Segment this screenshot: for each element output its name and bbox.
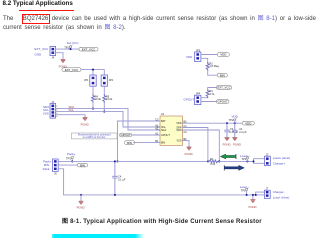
wire pin stubs U1 xyxy=(157,121,187,143)
junction at TP1 xyxy=(69,48,71,50)
red box annotation around BQ27426 xyxy=(22,14,50,24)
svg-text:VDD: VDD xyxy=(245,121,251,125)
wire Pack- to bottom rail xyxy=(58,169,256,195)
wire JP4 pin2 to GPOUT label xyxy=(201,101,217,103)
svg-text:Ext VCC: Ext VCC xyxy=(67,41,79,45)
svg-text:BIN: BIN xyxy=(127,141,132,145)
svg-text:U1: U1 xyxy=(161,112,165,116)
connector J1 xyxy=(50,100,58,118)
svg-text:JP2: JP2 xyxy=(109,78,114,82)
svg-text:to a GPIO on the host.: to a GPIO on the host. xyxy=(83,136,106,139)
svg-text:TP3: TP3 xyxy=(66,156,71,160)
junction J2 split xyxy=(252,160,254,162)
svg-text:TP5: TP5 xyxy=(241,189,246,193)
wire SDA bus xyxy=(56,108,128,110)
connector J6 xyxy=(53,159,59,175)
ground PGND (J4) xyxy=(59,60,67,69)
wire GPOUT label to U1 xyxy=(132,134,160,136)
wire PGND stub xyxy=(252,195,254,200)
svg-text:PGND: PGND xyxy=(185,152,193,156)
svg-text:0.01: 0.01 xyxy=(210,162,216,166)
wire J2 split xyxy=(254,159,265,164)
net label EXT_VCC (top) xyxy=(79,47,98,51)
svg-text:PGND: PGND xyxy=(81,123,89,127)
svg-text:VDD: VDD xyxy=(220,53,226,57)
wire JP1 to R4 xyxy=(92,86,94,94)
jumper JP5 xyxy=(195,48,201,61)
net label GPOUT (at U1) xyxy=(120,133,132,137)
junction SRP/R1 left xyxy=(207,160,209,162)
ground PGND (J1) xyxy=(81,118,89,127)
wire SDA drop to U1 xyxy=(128,109,160,130)
jumper JP4 xyxy=(195,92,201,105)
svg-text:BIN: BIN xyxy=(161,142,165,145)
svg-text:BIN: BIN xyxy=(220,73,225,77)
wire JP4 pin1 to R3 xyxy=(201,97,208,99)
capacitor C3 xyxy=(225,123,239,137)
connector J4 xyxy=(50,46,56,59)
connector J2 xyxy=(265,153,271,166)
op-amp U1 fuel gauge IC xyxy=(160,112,183,145)
svg-text:4.7k: 4.7k xyxy=(209,92,215,96)
resistor R3 xyxy=(206,89,215,98)
svg-text:4: 4 xyxy=(56,116,58,118)
svg-text:EXT_VCC: EXT_VCC xyxy=(35,47,50,51)
svg-text:GPOUT: GPOUT xyxy=(184,97,195,101)
junction C4 top xyxy=(114,160,116,162)
svg-text:BIN: BIN xyxy=(80,163,85,167)
wire SCL drop to U1 xyxy=(123,112,160,127)
net label VDD (JP5) xyxy=(217,53,229,57)
ground PGND (bottom rail) xyxy=(77,201,85,209)
figure caption xyxy=(62,216,262,225)
wire SRN xyxy=(183,130,220,161)
svg-text:EXT_VCC: EXT_VCC xyxy=(217,86,230,90)
ground PGND (U1 VSS) xyxy=(185,147,193,156)
svg-text:Charger+: Charger+ xyxy=(273,161,286,165)
svg-text:BAT: BAT xyxy=(161,120,166,123)
wire J4 pin2 to ground xyxy=(56,53,63,60)
junction J7 split xyxy=(255,194,257,196)
wire TP4 stem xyxy=(246,159,248,161)
junction TP5/rail xyxy=(246,194,248,196)
svg-text:SDA: SDA xyxy=(161,129,166,132)
svg-text:JP1: JP1 xyxy=(84,78,89,82)
net label EXT_VCC (pull-up rail) xyxy=(62,68,81,72)
net label BIN (J6) xyxy=(78,163,88,167)
junction TP3/Pack+ xyxy=(71,160,73,162)
wire R4 to SDA xyxy=(92,103,94,109)
junction TP4/Load+ xyxy=(246,160,248,162)
test point TP1 xyxy=(64,45,72,50)
wire JP5 pin2 to R2 xyxy=(201,58,208,62)
jumper JP2 xyxy=(101,75,114,86)
svg-text:PGND: PGND xyxy=(77,205,85,209)
wire VSS to ground xyxy=(183,141,190,147)
svg-text:Load- (Host): Load- (Host) xyxy=(273,195,290,199)
svg-text:J6: J6 xyxy=(54,171,57,175)
svg-text:2.2 µF: 2.2 µF xyxy=(239,130,247,134)
wire SCL bus xyxy=(56,111,123,113)
wire BAT riser (U1 BAT to Pack+) xyxy=(118,121,161,161)
svg-text:GPOUT: GPOUT xyxy=(218,100,229,104)
svg-text:VDD: VDD xyxy=(176,122,181,125)
ground PGND (C1) xyxy=(233,138,241,147)
net label EXT_VCC (JP4) xyxy=(216,86,231,90)
note box: recommended GPIO xyxy=(72,133,118,139)
svg-text:Charger-: Charger- xyxy=(273,190,285,194)
svg-text:VSS: VSS xyxy=(43,112,49,116)
svg-text:GND: GND xyxy=(35,52,43,56)
svg-text:TP2: TP2 xyxy=(229,118,234,122)
junction bottom rail left xyxy=(80,194,82,196)
svg-text:Load+ (Host): Load+ (Host) xyxy=(273,156,290,160)
svg-text:VSS: VSS xyxy=(176,140,181,143)
junction R5/SCL xyxy=(103,111,105,113)
connector J7 xyxy=(264,187,270,199)
svg-text:TP1: TP1 xyxy=(64,46,69,50)
wire J7 split xyxy=(256,192,265,195)
svg-text:C2: C2 xyxy=(184,131,188,134)
wire R5 to SCL xyxy=(103,103,105,112)
svg-text:VDD: VDD xyxy=(232,114,239,118)
test point TP2 xyxy=(229,118,237,122)
net label BIN (JP5) xyxy=(217,73,227,77)
svg-text:JP5: JP5 xyxy=(196,48,201,52)
cyan highlight bar xyxy=(52,234,143,238)
wire SRP xyxy=(183,128,208,162)
svg-text:VDD: VDD xyxy=(186,55,193,59)
test point TP3 xyxy=(66,156,74,161)
svg-text:J4: J4 xyxy=(52,56,55,60)
capacitor C1 xyxy=(233,123,248,137)
wire JP2 to R5 xyxy=(103,86,105,94)
svg-text:R1: R1 xyxy=(210,157,214,161)
resistor R1 sense xyxy=(208,157,219,166)
svg-text:0.1 µF: 0.1 µF xyxy=(118,177,126,181)
net label VDD (rail) xyxy=(242,121,254,125)
wire pull-up rail xyxy=(81,70,104,75)
svg-text:1.8 Meg: 1.8 Meg xyxy=(209,64,219,68)
wire TP2 stem xyxy=(234,121,236,123)
junction TP2/C1/VDD xyxy=(234,122,236,124)
net label BIN (at U1) xyxy=(125,141,135,145)
paragraph xyxy=(3,15,316,34)
wire TP3 stem xyxy=(71,159,73,162)
svg-text:10.0k: 10.0k xyxy=(106,97,113,101)
wire BIN label to U1 xyxy=(134,142,160,144)
red underline annotation under heading xyxy=(19,10,75,11)
jumper JP1 xyxy=(84,75,96,86)
junction PGND stub xyxy=(252,194,254,196)
resistor R5 xyxy=(103,94,113,102)
resistor R2 xyxy=(206,61,219,70)
test point TP5 xyxy=(241,187,249,192)
svg-text:1: 1 xyxy=(56,106,58,108)
net label GPOUT (JP4) xyxy=(216,100,229,104)
svg-text:GPOUT: GPOUT xyxy=(161,134,170,137)
svg-text:Pack-: Pack- xyxy=(43,167,51,171)
svg-text:EXT_VCC: EXT_VCC xyxy=(65,68,78,72)
junction R4/SDA xyxy=(92,108,94,110)
svg-text:10.0k: 10.0k xyxy=(95,97,102,101)
wire R1 to Load+ xyxy=(219,160,253,162)
wire TP1 stem xyxy=(70,48,72,49)
charge arrow (blue, right) xyxy=(224,165,244,170)
ground PGND (rail) xyxy=(249,200,257,209)
wire rail PGND stub xyxy=(80,195,82,201)
wire Pack+ main line xyxy=(58,160,208,162)
svg-text:PGND: PGND xyxy=(249,205,257,209)
svg-text:SRN: SRN xyxy=(176,129,181,132)
junction C3/VDD xyxy=(226,122,228,124)
svg-text:GPOUT: GPOUT xyxy=(120,133,131,137)
wire JP1 drop xyxy=(92,70,94,75)
junction SRN/R1 right xyxy=(218,160,220,162)
svg-text:PGND: PGND xyxy=(223,143,231,147)
wire VDD rail xyxy=(183,122,243,124)
resistor R4 xyxy=(92,94,102,102)
wire R3 to EXT_VCC label xyxy=(208,88,217,90)
wire J4 pin1 to EXT_VCC label xyxy=(56,48,79,50)
wire TP5 stem xyxy=(246,191,248,195)
ground PGND (C3) xyxy=(223,138,231,147)
wire R2 to BIN label xyxy=(208,71,218,76)
svg-text:SCL: SCL xyxy=(69,108,75,112)
wire JP5 pin1 to VDD label xyxy=(201,54,217,56)
wire J6 BIN to label xyxy=(58,164,77,166)
discharge arrow (green, left) xyxy=(220,154,236,159)
svg-text:EXT_VCC: EXT_VCC xyxy=(82,47,95,51)
wire VSS to ground xyxy=(56,115,85,118)
svg-text:TP4: TP4 xyxy=(242,157,247,161)
capacitor C4 xyxy=(113,161,126,195)
junction rail/JP1 xyxy=(92,69,94,71)
junction C4 bottom xyxy=(114,194,116,196)
junction BAT/Pack+ xyxy=(116,160,118,162)
heading 8.2 Typical Applications xyxy=(3,0,73,7)
test point TP4 xyxy=(242,156,250,161)
svg-text:JP4: JP4 xyxy=(196,92,201,96)
svg-text:PGND: PGND xyxy=(233,143,241,147)
